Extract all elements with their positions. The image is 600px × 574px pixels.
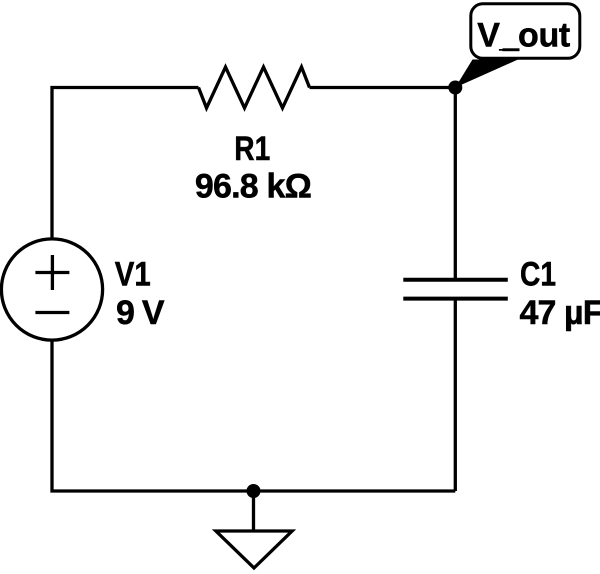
svg-text:47 µF: 47 µF xyxy=(520,294,600,332)
svg-text:V_out: V_out xyxy=(477,16,570,54)
ground xyxy=(216,491,292,568)
node V_out xyxy=(448,81,462,95)
svg-text:R1: R1 xyxy=(234,130,270,168)
wire xyxy=(52,88,199,241)
svg-text:C1: C1 xyxy=(520,256,556,294)
capacitor C1 xyxy=(403,280,508,299)
svg-text:96.8 kΩ: 96.8 kΩ xyxy=(195,167,312,205)
svg-text:9 V: 9 V xyxy=(116,294,165,332)
wire xyxy=(454,299,457,492)
resistor R1 xyxy=(199,67,310,108)
junction xyxy=(247,484,261,498)
voltage source V1 xyxy=(1,239,102,340)
wire xyxy=(52,339,455,491)
wire xyxy=(454,88,457,280)
svg-text:V1: V1 xyxy=(115,256,151,294)
wire xyxy=(310,86,456,89)
net label V_out xyxy=(455,4,580,88)
